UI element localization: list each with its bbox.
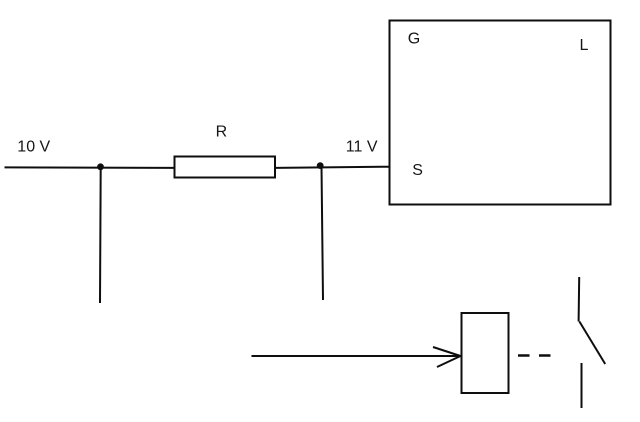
wire: left supply wire from edge to resistor [5, 166, 174, 169]
wire: vertical drop from left junction [99, 167, 102, 303]
node junction dot right [317, 162, 324, 169]
svg-text:G: G [408, 31, 420, 48]
svg-text:L: L [580, 37, 589, 54]
resistor R1 [175, 157, 276, 178]
wire: from resistor to gate box [276, 167, 390, 168]
svg-text:S: S [412, 162, 423, 179]
svg-text:10 V: 10 V [17, 139, 50, 156]
node junction dot left [97, 163, 104, 170]
switch S1: upper contact lead [578, 277, 581, 322]
svg-text:R: R [216, 124, 228, 141]
dashed link to switch [518, 354, 552, 357]
svg-text:11 V: 11 V [346, 139, 378, 156]
switch S1: open blade [579, 322, 605, 365]
arrow into actuator block [252, 347, 461, 367]
wire: vertical drop from right junction [322, 166, 324, 300]
logic gate box U1 [390, 21, 611, 205]
switch S1: lower contact lead [581, 363, 583, 408]
actuator block [462, 313, 509, 393]
